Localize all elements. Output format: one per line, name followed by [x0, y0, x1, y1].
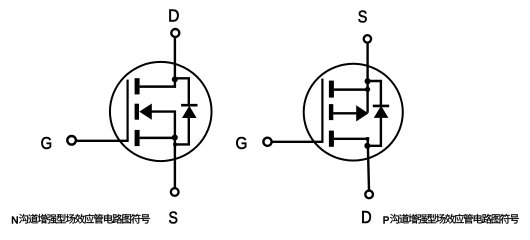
node: diode-source junction blob — [173, 143, 176, 146]
wire: body line to arrow — [333, 112, 357, 114]
transistor Q2 body circle — [304, 64, 403, 161]
node: drain junction dot — [364, 143, 370, 149]
wire: source bar to S node — [140, 137, 176, 139]
body diode D2 triangle — [374, 106, 389, 118]
node: drain junction dot — [172, 76, 178, 82]
svg-text:P: P — [383, 215, 390, 226]
wire: drain to body-diode cathode branch — [175, 78, 189, 105]
terminal D open circle — [171, 29, 179, 37]
wire: G lead — [272, 141, 323, 143]
source contact bar — [135, 130, 140, 146]
body contact bar (middle) — [135, 104, 139, 120]
wire: body to source node — [151, 112, 175, 138]
wire: source bar to S lead — [334, 88, 369, 90]
svg-text:N: N — [11, 215, 18, 226]
wire: drain bar to D lead — [334, 138, 369, 140]
body diode D1 triangle — [182, 106, 197, 118]
node: bar-lead junction dot — [365, 87, 370, 92]
wire: D lead down to terminal — [368, 139, 369, 190]
svg-text:S: S — [358, 6, 368, 26]
svg-text:G: G — [41, 133, 53, 153]
body contact bar (middle) — [329, 104, 333, 120]
terminal G open circle — [67, 136, 76, 145]
svg-text:D: D — [361, 207, 372, 227]
wire: source to body-diode cathode branch — [368, 81, 381, 105]
wire: S lead down to terminal — [174, 138, 176, 188]
node: bar-lead junction blob — [366, 137, 369, 140]
wire: S lead down to arrow apex — [366, 43, 368, 113]
wire: diode anode to S node — [174, 117, 189, 144]
wire: D lead down to drain bar line — [174, 38, 176, 88]
wire: drain bar to D lead — [140, 85, 176, 87]
svg-text:S: S — [169, 207, 178, 227]
wire: diode anode to D node — [367, 117, 381, 146]
terminal G open circle — [263, 138, 271, 146]
terminal S open circle — [364, 35, 371, 42]
node: source junction dot — [172, 134, 178, 140]
body diode D1 cathode bar — [181, 104, 197, 107]
svg-text:D: D — [168, 6, 179, 26]
drain contact bar — [135, 78, 140, 94]
source contact bar — [329, 81, 334, 98]
svg-text:G: G — [236, 133, 248, 153]
terminal D open circle — [365, 191, 373, 199]
gate electrode line — [321, 79, 323, 142]
drain contact bar — [329, 131, 334, 147]
wire: G lead — [76, 140, 128, 142]
terminal S open circle — [171, 188, 179, 196]
body diode D2 cathode bar — [373, 105, 389, 108]
transistor Q1 body circle — [110, 62, 212, 161]
body arrow (points left, N-channel) — [139, 104, 152, 120]
node: source junction dot — [365, 78, 371, 84]
gate electrode line — [126, 80, 128, 141]
body arrow (points right, P-channel) — [356, 105, 368, 121]
